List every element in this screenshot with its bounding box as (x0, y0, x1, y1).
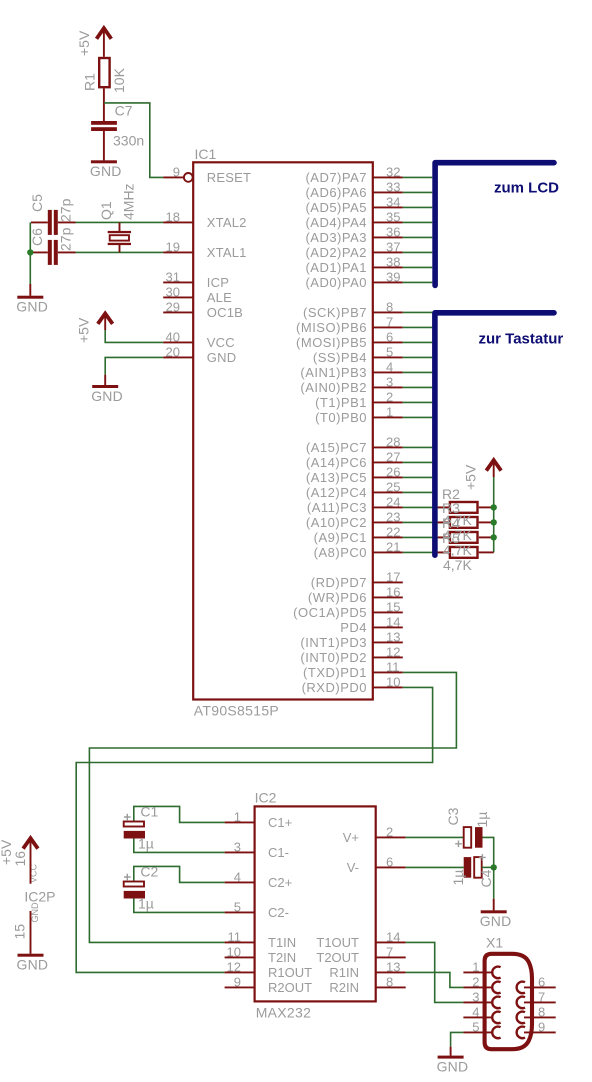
svg-text:C2-: C2- (268, 905, 289, 920)
wire C4 to junction (482, 866, 494, 868)
ground stub (104, 375, 106, 385)
svg-text:zur Tastatur: zur Tastatur (479, 330, 564, 347)
svg-text:C1: C1 (140, 803, 158, 819)
svg-text:4: 4 (386, 359, 393, 374)
svg-text:(AD5)PA5: (AD5)PA5 (305, 200, 367, 215)
svg-text:40: 40 (166, 329, 180, 344)
junction R3 (491, 519, 497, 525)
svg-text:37: 37 (386, 239, 400, 254)
IC1 pin 19 (XTAL1) (163, 239, 246, 260)
svg-text:T1OUT: T1OUT (316, 935, 359, 950)
svg-text:C7: C7 (115, 103, 133, 119)
svg-text:8: 8 (538, 1004, 545, 1019)
svg-text:3: 3 (234, 839, 241, 854)
svg-text:21: 21 (386, 539, 400, 554)
svg-text:11: 11 (386, 659, 400, 674)
wire C7 to GND (103, 131, 105, 160)
wire PB2 to keyboard bus (403, 386, 433, 388)
svg-text:(AIN1)PB3: (AIN1)PB3 (300, 365, 367, 380)
IC1 pin 5 ((SS)PB4) (313, 344, 403, 365)
svg-text:GND: GND (207, 350, 237, 365)
wire PC3 to R2 (403, 506, 449, 508)
svg-text:330n: 330n (113, 133, 144, 149)
wire PA2 to LCD bus (403, 251, 433, 253)
svg-text:PD4: PD4 (340, 620, 367, 635)
wire XTAL1 net (75, 251, 163, 253)
X1 pin 6 (517, 974, 556, 993)
svg-text:14: 14 (386, 614, 400, 629)
ground (pin 20) (91, 385, 123, 404)
svg-text:32: 32 (386, 164, 400, 179)
X1 pin 9 (517, 1019, 556, 1038)
svg-text:25: 25 (386, 479, 400, 494)
svg-text:(MOSI)PB5: (MOSI)PB5 (296, 335, 367, 350)
svg-text:(A9)PC1: (A9)PC1 (314, 530, 367, 545)
svg-text:4: 4 (234, 869, 241, 884)
wire PA3 to LCD bus (403, 236, 433, 238)
svg-text:1: 1 (234, 809, 241, 824)
IC2 pin 8 (R2IN) (329, 974, 405, 995)
svg-text:16: 16 (12, 851, 28, 867)
IC1 pin 7 ((MISO)PB6) (296, 314, 403, 335)
svg-text:13: 13 (386, 959, 400, 974)
IC2 pin 4 (C2+) (225, 869, 293, 890)
wire C3 to junction (483, 837, 494, 867)
svg-text:(TXD)PD1: (TXD)PD1 (303, 665, 367, 680)
svg-text:R2OUT: R2OUT (268, 980, 312, 995)
svg-text:(AD3)PA3: (AD3)PA3 (305, 230, 367, 245)
wire PB4 to keyboard bus (403, 356, 433, 358)
svg-text:Q1: Q1 (98, 201, 114, 220)
X1 pin 7 (517, 989, 556, 1008)
IC1 pin 16 ((WR)PD6) (308, 584, 403, 605)
wire PB0 to keyboard bus (403, 416, 433, 418)
wire PB3 to keyboard bus (403, 371, 433, 373)
IC1 pin 31 (ICP) (163, 269, 229, 290)
IC2 pin 14 (T1OUT) (316, 929, 405, 950)
svg-text:38: 38 (386, 254, 400, 269)
svg-text:+5V: +5V (463, 464, 479, 490)
wire PA5 to LCD bus (403, 206, 433, 208)
IC2 pin 11 (T1IN) (225, 929, 297, 950)
svg-text:AT90S8515P: AT90S8515P (194, 702, 279, 718)
IC2 pin 1 (C1+) (225, 809, 293, 830)
capacitor C2 (124, 874, 145, 899)
svg-text:X1: X1 (486, 934, 503, 950)
IC1 pin 11 ((TXD)PD1) (303, 659, 403, 680)
svg-text:31: 31 (166, 269, 180, 284)
wire pin 20 to GND (105, 357, 163, 374)
IC1 pin 30 (ALE) (163, 284, 232, 305)
svg-text:3: 3 (386, 374, 393, 389)
svg-text:(A10)PC2: (A10)PC2 (306, 515, 367, 530)
svg-text:(T1)PB1: (T1)PB1 (315, 395, 367, 410)
svg-text:(AD6)PA6: (AD6)PA6 (305, 185, 367, 200)
wire C1- to pin (134, 836, 225, 852)
svg-text:4,7K: 4,7K (443, 512, 472, 528)
svg-text:20: 20 (166, 344, 180, 359)
svg-text:(MISO)PB6: (MISO)PB6 (296, 320, 367, 335)
svg-text:22: 22 (386, 524, 400, 539)
svg-text:IC1: IC1 (195, 146, 217, 162)
svg-text:(A14)PC6: (A14)PC6 (306, 455, 367, 470)
svg-text:6: 6 (386, 854, 393, 869)
svg-text:MAX232: MAX232 (256, 1004, 312, 1020)
svg-text:(AD2)PA2: (AD2)PA2 (305, 245, 367, 260)
IC1 pin 37 ((AD2)PA2) (305, 239, 402, 260)
IC1 pin 23 ((A10)PC2) (306, 509, 403, 530)
IC1 pin 39 ((AD0)PA0) (305, 269, 402, 290)
svg-text:28: 28 (386, 434, 400, 449)
IC1 pin 4 ((AIN1)PB3) (300, 359, 402, 380)
resistor R2 body (450, 502, 478, 513)
wire R1IN to X1 pin 2 (406, 972, 464, 987)
svg-text:18: 18 (166, 209, 180, 224)
IC1 pin 27 ((A14)PC6) (306, 449, 403, 470)
svg-text:C2+: C2+ (268, 875, 292, 890)
svg-text:5: 5 (234, 899, 241, 914)
svg-text:14: 14 (386, 929, 400, 944)
bus to keyboard (435, 313, 554, 555)
svg-text:13: 13 (386, 629, 400, 644)
svg-text:27: 27 (386, 449, 400, 464)
svg-text:17: 17 (386, 569, 400, 584)
resistor R3 body (450, 517, 478, 528)
ground stub (450, 1047, 452, 1056)
svg-text:23: 23 (386, 509, 400, 524)
svg-text:(SCK)PB7: (SCK)PB7 (303, 305, 367, 320)
wire TXD to T1IN (89, 672, 456, 942)
ground (crystal) (16, 296, 48, 315)
IC1 pin 13 ((INT1)PD3) (300, 629, 402, 650)
IC2 pin 6 (V-) (347, 854, 406, 875)
svg-text:C2: C2 (140, 863, 158, 879)
svg-text:(A8)PC0: (A8)PC0 (314, 545, 367, 560)
svg-text:(A11)PC3: (A11)PC3 (307, 500, 367, 515)
svg-text:XTAL1: XTAL1 (207, 245, 247, 260)
IC1 pin 8 ((SCK)PB7) (303, 299, 403, 320)
svg-text:C1+: C1+ (268, 815, 292, 830)
svg-text:V+: V+ (343, 830, 359, 845)
junction R2/+5V (491, 504, 497, 510)
svg-text:8: 8 (386, 974, 393, 989)
svg-text:4MHz: 4MHz (121, 183, 137, 220)
IC1 pin 24 ((A11)PC3) (307, 494, 403, 515)
svg-text:(WR)PD6: (WR)PD6 (308, 590, 367, 605)
wire node to RESET net (104, 103, 163, 177)
svg-text:8: 8 (386, 299, 393, 314)
svg-text:GND: GND (90, 163, 122, 179)
svg-text:(A12)PC4: (A12)PC4 (306, 485, 367, 500)
IC2 pin 10 (T2IN) (225, 944, 297, 965)
capacitor C6 (31, 240, 76, 265)
svg-text:R1IN: R1IN (329, 965, 359, 980)
svg-text:1: 1 (472, 959, 479, 974)
svg-text:(INT1)PD3: (INT1)PD3 (300, 635, 367, 650)
svg-text:GND: GND (437, 1059, 469, 1075)
svg-text:7: 7 (538, 989, 545, 1004)
op IC1 AT90S8515P body (193, 162, 373, 699)
IC1 pin 2 ((T1)PB1) (315, 389, 403, 410)
svg-text:(A15)PC7: (A15)PC7 (306, 440, 367, 455)
svg-text:4,7K: 4,7K (443, 527, 472, 543)
X1 pin 3 (463, 989, 500, 1008)
svg-text:27p: 27p (58, 198, 74, 222)
ground (X1) (437, 1056, 469, 1075)
svg-text:1µ: 1µ (474, 812, 490, 828)
wire R2 riser (493, 477, 495, 552)
svg-text:39: 39 (386, 269, 400, 284)
svg-text:R2IN: R2IN (329, 980, 359, 995)
wire PA0 to LCD bus (403, 281, 433, 283)
svg-text:(OC1A)PD5: (OC1A)PD5 (293, 605, 367, 620)
wire PB5 to keyboard bus (403, 341, 433, 343)
svg-text:(AD7)PA7: (AD7)PA7 (305, 170, 367, 185)
IC1 pin 22 ((A9)PC1) (314, 524, 403, 545)
wire PA6 to LCD bus (403, 191, 433, 193)
IC1 pin 15 ((OC1A)PD5) (293, 599, 403, 620)
ground (C4) (480, 910, 512, 929)
wire V- to C4 (406, 866, 464, 868)
resistor R1 (99, 58, 109, 87)
X1 pin 2 (463, 974, 500, 993)
svg-text:GND: GND (480, 913, 512, 929)
IC2 pin 9 (R2OUT) (225, 974, 313, 995)
wire PC4 to keyboard bus (403, 491, 433, 493)
wire R1 to C7 (103, 88, 105, 121)
svg-text:5: 5 (472, 1019, 479, 1034)
svg-text:12: 12 (227, 959, 241, 974)
X1 pin 5 (463, 1019, 500, 1038)
IC1 pin 20 (GND) (163, 344, 236, 365)
IC1 pin 28 ((A15)PC7) (306, 434, 403, 455)
IC1 pin 1 ((T0)PB0) (315, 404, 403, 425)
pin GND line (30, 911, 32, 954)
IC1 pin 3 ((AIN0)PB2) (300, 374, 402, 395)
svg-text:C3: C3 (445, 807, 461, 825)
svg-text:4: 4 (472, 1004, 479, 1019)
wire PC1 to R2 (403, 536, 449, 538)
IC1 pin 9 (RESET) (163, 164, 251, 185)
IC1 pin 40 (VCC) (163, 329, 235, 350)
svg-text:IC2P: IC2P (24, 889, 55, 905)
IC1 pin 21 ((A8)PC0) (314, 539, 403, 560)
X1 pin 1 (463, 959, 500, 978)
svg-text:34: 34 (386, 194, 400, 209)
IC1 pin 25 ((A12)PC4) (306, 479, 403, 500)
resistor R5 body (450, 547, 478, 558)
wire +5V stub (493, 461, 495, 477)
svg-text:2: 2 (386, 824, 393, 839)
wire C1+ to pin (134, 806, 225, 824)
capacitor C4 (464, 854, 486, 878)
svg-text:C6: C6 (29, 228, 45, 246)
wire to ground (29, 284, 31, 296)
IC1 pin 10 ((RXD)PD0) (302, 674, 403, 695)
wire PB1 to keyboard bus (403, 401, 433, 403)
X1 pin 8 (517, 1004, 556, 1023)
IC1 pin 35 ((AD4)PA4) (305, 209, 402, 230)
wire PC6 to keyboard bus (403, 461, 433, 463)
IC1 pin 17 ((RD)PD7) (311, 569, 403, 590)
svg-text:(AD4)PA4: (AD4)PA4 (305, 215, 367, 230)
svg-text:R1: R1 (82, 73, 98, 91)
wire V+ to C3 (406, 836, 464, 838)
svg-text:16: 16 (386, 584, 400, 599)
svg-text:C4: C4 (478, 869, 494, 887)
wire PA4 to LCD bus (403, 221, 433, 223)
IC1 pin 6 ((MOSI)PB5) (296, 329, 403, 350)
svg-text:4,7K: 4,7K (443, 542, 472, 558)
IC2 pin 7 (T2OUT) (316, 944, 405, 965)
wire C2+ to pin (134, 866, 225, 884)
svg-text:XTAL2: XTAL2 (207, 215, 247, 230)
resistor R2 stubs (438, 506, 494, 508)
ground stub (493, 899, 495, 911)
IC1 pin 32 ((AD7)PA7) (305, 164, 402, 185)
junction C3/C4 (491, 864, 497, 870)
wire RXD to R1OUT (76, 687, 432, 972)
X1 pin 4 (463, 1004, 500, 1023)
svg-text:1µ: 1µ (450, 870, 466, 886)
IC1 pin 33 ((AD6)PA6) (305, 179, 402, 200)
svg-text:R1OUT: R1OUT (268, 965, 312, 980)
svg-text:1: 1 (386, 404, 393, 419)
svg-text:9: 9 (234, 974, 241, 989)
svg-text:29: 29 (166, 299, 180, 314)
capacitor C7 (91, 121, 117, 131)
svg-text:1µ: 1µ (138, 895, 154, 911)
svg-text:(RXD)PD0: (RXD)PD0 (302, 680, 367, 695)
wire +5V to pin 40 (105, 330, 163, 342)
svg-text:35: 35 (386, 209, 400, 224)
svg-text:36: 36 (386, 224, 400, 239)
svg-text:(RD)PD7: (RD)PD7 (311, 575, 367, 590)
power +5V (R1 top) (97, 28, 112, 39)
svg-text:11: 11 (228, 929, 242, 944)
svg-text:GND: GND (16, 299, 48, 315)
svg-text:9: 9 (538, 1019, 545, 1034)
IC2 pin 5 (C2-) (225, 899, 289, 920)
capacitor C1 (124, 814, 145, 839)
IC1 pin 36 ((AD3)PA3) (305, 224, 402, 245)
svg-text:(T0)PB0: (T0)PB0 (315, 410, 367, 425)
svg-text:5: 5 (386, 344, 393, 359)
svg-text:(AIN0)PB2: (AIN0)PB2 (300, 380, 367, 395)
resistor R4 body (450, 532, 478, 543)
wire PC5 to keyboard bus (403, 476, 433, 478)
junction (C6/GND) (27, 249, 33, 255)
svg-text:VCC: VCC (207, 335, 235, 350)
IC1 pin 12 ((INT0)PD2) (300, 644, 402, 665)
svg-text:C5: C5 (29, 194, 45, 212)
wire PC2 to R2 (403, 521, 449, 523)
IC1 pin 18 (XTAL2) (163, 209, 246, 230)
svg-text:GND: GND (91, 388, 123, 404)
power +5V (R2) (486, 460, 501, 470)
svg-text:IC2: IC2 (255, 789, 277, 805)
svg-text:4,7K: 4,7K (443, 557, 472, 573)
IC2 pin 12 (R1OUT) (225, 959, 313, 980)
svg-text:GND: GND (30, 902, 40, 923)
svg-text:+5V: +5V (76, 30, 92, 56)
svg-text:7: 7 (386, 314, 393, 329)
svg-text:10: 10 (227, 944, 241, 959)
svg-text:26: 26 (386, 464, 400, 479)
svg-text:C1-: C1- (268, 845, 289, 860)
svg-text:15: 15 (12, 924, 28, 940)
svg-text:T2IN: T2IN (268, 950, 296, 965)
svg-text:(AD1)PA1: (AD1)PA1 (305, 260, 367, 275)
wire XTAL2 net (75, 221, 163, 223)
wire PA7 to LCD bus (403, 176, 433, 178)
ground (C7) (90, 160, 122, 179)
svg-text:3: 3 (472, 989, 479, 1004)
svg-text:ICP: ICP (207, 275, 229, 290)
svg-text:OC1B: OC1B (207, 305, 243, 320)
svg-text:zum LCD: zum LCD (494, 179, 559, 196)
IC1 pin 38 ((AD1)PA1) (305, 254, 402, 275)
connector X1 outline (485, 954, 532, 1049)
wire cap gnd riser (29, 222, 31, 284)
power +5V (VCC) (98, 314, 113, 324)
svg-text:ALE: ALE (207, 290, 232, 305)
IC2 pin 13 (R1IN) (329, 959, 405, 980)
svg-text:6: 6 (538, 974, 545, 989)
wire +5V to R1 (103, 30, 105, 57)
wire PC7 to keyboard bus (403, 446, 433, 448)
ground (IC2P) (17, 954, 49, 973)
svg-text:(AD0)PA0: (AD0)PA0 (305, 275, 367, 290)
wire C2- to pin (134, 896, 225, 912)
junction R4 (491, 534, 497, 540)
svg-text:GND: GND (17, 957, 49, 973)
wire PB6 to keyboard bus (403, 326, 433, 328)
svg-text:T2OUT: T2OUT (316, 950, 359, 965)
IC1 pin 14 (PD4) (340, 614, 403, 635)
wire +5V stub (104, 315, 106, 331)
wire PB7 to keyboard bus (403, 311, 433, 313)
IC2 pin 3 (C1-) (225, 839, 289, 860)
crystal Q1 (108, 222, 131, 252)
IC1 pin 34 ((AD5)PA5) (305, 194, 402, 215)
svg-text:30: 30 (166, 284, 180, 299)
IC1 pin 29 (OC1B) (163, 299, 243, 320)
svg-text:7: 7 (386, 944, 393, 959)
svg-text:1µ: 1µ (138, 835, 154, 851)
svg-text:RESET: RESET (207, 170, 251, 185)
svg-text:+5V: +5V (76, 317, 92, 343)
wire junction to GND (493, 867, 495, 898)
svg-text:9: 9 (173, 164, 180, 179)
svg-text:19: 19 (166, 239, 180, 254)
svg-text:2: 2 (472, 974, 479, 989)
svg-text:27p: 27p (58, 227, 74, 251)
IC1 pin 26 ((A13)PC5) (306, 464, 403, 485)
pin VCC line (30, 839, 32, 884)
resistor R4 stubs (438, 536, 494, 538)
capacitor C5 (31, 210, 76, 235)
svg-text:2: 2 (386, 389, 393, 404)
svg-text:T1IN: T1IN (268, 935, 296, 950)
wire X1 pin 5 to GND (451, 1032, 464, 1046)
wire T1OUT to X1 pin 3 (406, 942, 464, 1002)
svg-text:15: 15 (386, 599, 400, 614)
svg-text:33: 33 (386, 179, 400, 194)
svg-text:(INT0)PD2: (INT0)PD2 (300, 650, 367, 665)
power +5V (IC2P) (23, 838, 38, 848)
svg-text:12: 12 (386, 644, 400, 659)
